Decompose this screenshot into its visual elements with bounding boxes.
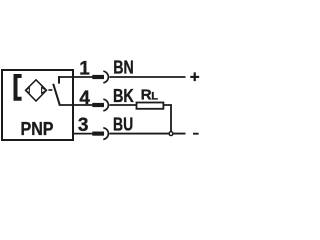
resistor RL body [137, 103, 164, 109]
wire pin4 from box [59, 104, 93, 106]
svg-text:4: 4 [79, 88, 90, 109]
pin 3 socket arc [103, 128, 108, 140]
wire resistor to corner and down [164, 105, 172, 132]
wire BK to resistor [109, 104, 136, 106]
diamond right triangle [42, 87, 47, 93]
pin 4 plug bar [92, 103, 104, 107]
svg-text:BN: BN [113, 57, 134, 78]
active face bracket [16, 76, 22, 99]
svg-text:R: R [141, 86, 152, 103]
sensor diamond [26, 80, 47, 101]
svg-text:L: L [151, 90, 158, 102]
svg-text:PNP: PNP [21, 118, 54, 139]
switch fixed hook stub [58, 76, 60, 83]
pin 4 socket arc [103, 99, 108, 111]
pin 3 plug bar [92, 132, 104, 136]
actuation dash [48, 89, 52, 91]
wire pin3 from box [73, 133, 93, 135]
junction node circle [169, 132, 173, 136]
svg-text:1: 1 [79, 59, 90, 80]
wire BN to plus [109, 76, 185, 78]
pin 1 socket arc [103, 71, 108, 83]
wire BU line [109, 133, 185, 135]
sensor box [2, 70, 73, 140]
pin 1 plug bar [92, 75, 104, 79]
wire pin1 from box [58, 76, 93, 78]
svg-text:BU: BU [113, 114, 133, 135]
svg-text:3: 3 [78, 115, 89, 136]
diamond left triangle [26, 87, 29, 93]
svg-text:+: + [190, 67, 200, 86]
switch contact diagonal [53, 84, 59, 105]
svg-text:BK: BK [113, 85, 134, 106]
minus terminal [193, 133, 199, 135]
